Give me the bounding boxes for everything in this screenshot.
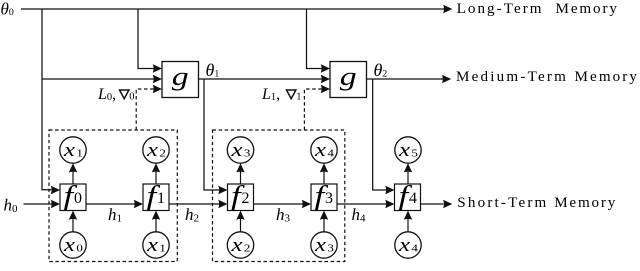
svg-text:3: 3 bbox=[325, 190, 333, 207]
svg-text:g: g bbox=[340, 62, 357, 91]
svg-text:L0,: L0, bbox=[97, 86, 116, 103]
svg-text:4: 4 bbox=[409, 190, 417, 207]
svg-text:L1,: L1, bbox=[261, 86, 280, 103]
svg-text:0: 0 bbox=[74, 190, 82, 207]
svg-text:Memory: Memory bbox=[554, 195, 617, 211]
svg-text:0: 0 bbox=[129, 92, 134, 103]
svg-text:Short-Term: Short-Term bbox=[457, 195, 548, 211]
svg-text:1: 1 bbox=[157, 190, 165, 207]
svg-text:g: g bbox=[172, 62, 189, 91]
svg-text:Memory: Memory bbox=[575, 69, 640, 85]
svg-text:Medium-Term: Medium-Term bbox=[456, 69, 568, 85]
svg-text:1: 1 bbox=[296, 92, 301, 103]
svg-text:2: 2 bbox=[242, 190, 250, 207]
svg-text:Memory: Memory bbox=[556, 1, 619, 17]
svg-text:Long-Term: Long-Term bbox=[457, 1, 544, 17]
